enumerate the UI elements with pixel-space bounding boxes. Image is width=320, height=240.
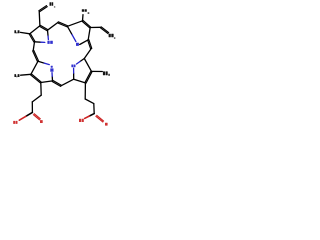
ring C (bottom-right pyrrole) <box>80 59 84 62</box>
CH2 label (top vinyl) <box>50 2 52 6</box>
O label (right acid) <box>105 123 108 126</box>
CH3 label (right methyl) <box>103 71 105 75</box>
CH3 label (top methyl) <box>82 9 84 12</box>
O label (left acid) <box>40 120 43 123</box>
methyl on ring C (right) <box>92 70 103 72</box>
HO label (left acid) <box>13 121 15 124</box>
chemical structure: protoporphyrin IX <box>0 0 130 130</box>
methyl on ring D (left) <box>21 73 31 76</box>
H3C label (upper left methyl) <box>14 30 16 33</box>
carboxyl group (right): C=O double bond <box>96 116 103 122</box>
propionic acid chain (left) <box>40 83 42 96</box>
carboxyl group (right): C-OH <box>89 114 94 116</box>
methyl on ring A <box>20 32 29 33</box>
CH2 label (right vinyl) <box>109 34 111 37</box>
ring B (top-right pyrrole) <box>67 21 82 27</box>
H3C label (lower left methyl) <box>14 74 16 77</box>
ring D NH label <box>51 66 53 68</box>
ring C NH label <box>71 65 73 68</box>
left methine bridge <box>33 42 34 51</box>
ring B N label <box>76 43 79 46</box>
top methine bridge <box>48 22 59 30</box>
vinyl on ring B (right) <box>90 26 101 28</box>
carboxyl group (left): C=O double bond <box>33 115 39 120</box>
ring A NH label <box>47 41 49 44</box>
vinyl on ring A <box>38 11 41 26</box>
carboxyl group (left): C-OH <box>26 112 33 116</box>
bottom methine bridge <box>52 81 61 86</box>
HO label (right acid) <box>79 119 81 122</box>
porphyrin macrocycle: ring A (top-left pyrrole) <box>30 26 40 34</box>
propionic acid chain (right) <box>84 83 86 99</box>
ring D (bottom-left pyrrole) <box>38 61 44 63</box>
right methine bridge <box>88 40 91 49</box>
methyl on ring B (top) <box>82 15 85 21</box>
